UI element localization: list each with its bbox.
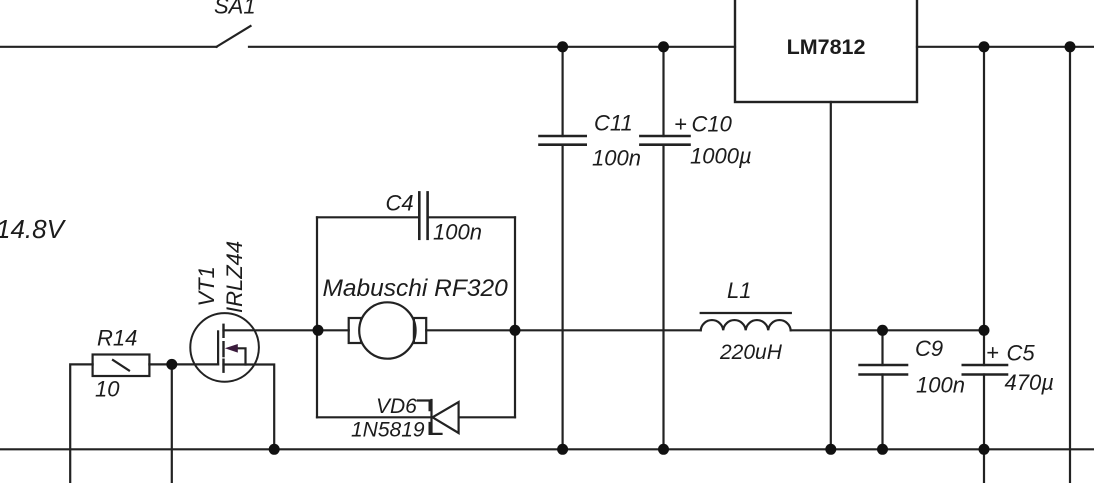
- junction bottom rail at C11: [557, 444, 568, 455]
- capacitor C5 plates: [963, 364, 1007, 367]
- capacitor C11 top lead: [561, 47, 563, 136]
- motor M1 right brush: [414, 318, 426, 343]
- svg-text:C4: C4: [386, 191, 414, 216]
- svg-text:IRLZ44: IRLZ44: [222, 241, 247, 313]
- wire top rail LM7812 output to right edge: [917, 46, 1094, 48]
- junction top rail at C5 branch: [979, 41, 990, 52]
- wire stub down from gate node: [171, 364, 173, 483]
- capacitor C4 plates: [418, 192, 421, 238]
- motor box right side: [514, 217, 516, 417]
- wire VT1 source: [224, 365, 275, 450]
- wire right vertical through C5 top: [983, 47, 985, 365]
- wire right vertical through C5 bottom: [983, 375, 985, 483]
- capacitor C10 plates: [640, 135, 689, 138]
- motor box bottom side right of VD6: [459, 416, 515, 418]
- wire R14 right to VT1 gate: [149, 363, 218, 365]
- svg-text:10: 10: [95, 377, 120, 402]
- junction bottom rail at LM7812 gnd: [825, 444, 836, 455]
- svg-text:100n: 100n: [592, 146, 641, 171]
- resistor R14 trimmer slash: [113, 360, 129, 371]
- wire bottom rail: [0, 448, 1094, 450]
- junction bottom rail at C5: [979, 444, 990, 455]
- svg-text:VT1: VT1: [194, 266, 219, 306]
- junction motor box left: [313, 325, 324, 336]
- svg-text:L1: L1: [727, 278, 751, 303]
- wire middle rail motor to L1: [515, 329, 701, 331]
- svg-text:R14: R14: [97, 326, 137, 351]
- svg-text:1000µ: 1000µ: [690, 144, 752, 169]
- junction gate node: [166, 359, 177, 370]
- motor box top side left of C4: [317, 216, 419, 218]
- junction bottom rail at C9: [877, 444, 888, 455]
- motor box bottom side left of VD6: [317, 416, 432, 418]
- wire LM7812 ground pin: [830, 102, 832, 449]
- label VD6 leader: [418, 401, 430, 411]
- motor M1 rotor circle: [359, 302, 415, 358]
- svg-text:C9: C9: [915, 336, 943, 361]
- capacitor C10 top lead: [662, 47, 664, 136]
- motor M1 left brush: [349, 318, 361, 343]
- wire middle rail L1 to C5 node: [791, 329, 984, 331]
- junction motor box right: [510, 325, 521, 336]
- junction bottom rail at C10: [658, 444, 669, 455]
- svg-text:+: +: [674, 112, 687, 137]
- wire top rail left segment: [0, 46, 217, 48]
- motor box top side right of C4: [428, 216, 515, 218]
- inductor L1 core line: [701, 312, 791, 314]
- svg-text:14.8V: 14.8V: [0, 214, 67, 244]
- svg-text:C5: C5: [1007, 341, 1036, 366]
- transistor VT1 channel segment middle: [222, 342, 224, 356]
- diode VD6 triangle: [433, 402, 459, 433]
- capacitor C10 bottom lead: [662, 145, 664, 450]
- junction middle rail at C5: [979, 325, 990, 336]
- svg-text:220uH: 220uH: [719, 341, 783, 364]
- transistor VT1 channel segment bottom: [222, 360, 224, 372]
- junction bottom rail at VT1 source: [269, 444, 280, 455]
- wire far right vertical: [1069, 47, 1071, 483]
- resistor R14 body: [93, 355, 150, 377]
- wire top rail from SA1 to LM7812 input: [249, 46, 735, 48]
- svg-text:470µ: 470µ: [1005, 370, 1054, 395]
- junction top rail at C11: [557, 41, 568, 52]
- svg-text:VD6: VD6: [376, 395, 417, 418]
- svg-text:C10: C10: [692, 112, 733, 137]
- transistor VT1 substrate arrow: [225, 344, 238, 353]
- wire right brush to motor box right: [426, 329, 515, 331]
- svg-text:C11: C11: [594, 111, 633, 136]
- capacitor C9 top lead: [881, 330, 883, 365]
- transistor VT1 body stub and source link: [236, 348, 246, 364]
- svg-text:100n: 100n: [433, 220, 482, 245]
- inductor L1 winding: [701, 320, 791, 330]
- svg-text:SA1: SA1: [214, 0, 256, 19]
- svg-text:1N5819: 1N5819: [351, 419, 425, 442]
- svg-text:LM7812: LM7812: [787, 35, 866, 59]
- svg-text:+: +: [986, 340, 999, 365]
- transistor VT1 body circle: [190, 313, 259, 382]
- transistor VT1 gate bar: [217, 331, 219, 364]
- svg-text:100n: 100n: [916, 373, 965, 398]
- label 1N5819 leader: [430, 423, 442, 434]
- junction middle rail at C9: [877, 325, 888, 336]
- resistor R14 left lead: [70, 364, 92, 483]
- capacitor C9 plates: [860, 364, 907, 367]
- capacitor C11 plates: [540, 135, 586, 138]
- motor box left side: [316, 217, 318, 417]
- capacitor C9 bottom lead: [881, 375, 883, 450]
- diode VD6 cathode bar: [430, 400, 432, 434]
- junction top rail at C10: [658, 41, 669, 52]
- capacitor C11 bottom lead: [561, 145, 563, 450]
- switch SA1 blade: [217, 26, 251, 47]
- junction top rail at right branch: [1065, 41, 1076, 52]
- svg-text:Mabuschi RF320: Mabuschi RF320: [323, 275, 509, 302]
- voltage regulator U1 LM7812 box: [735, 0, 917, 102]
- transistor VT1 channel segment top: [222, 325, 224, 337]
- wire VT1 drain to motor: [224, 329, 349, 331]
